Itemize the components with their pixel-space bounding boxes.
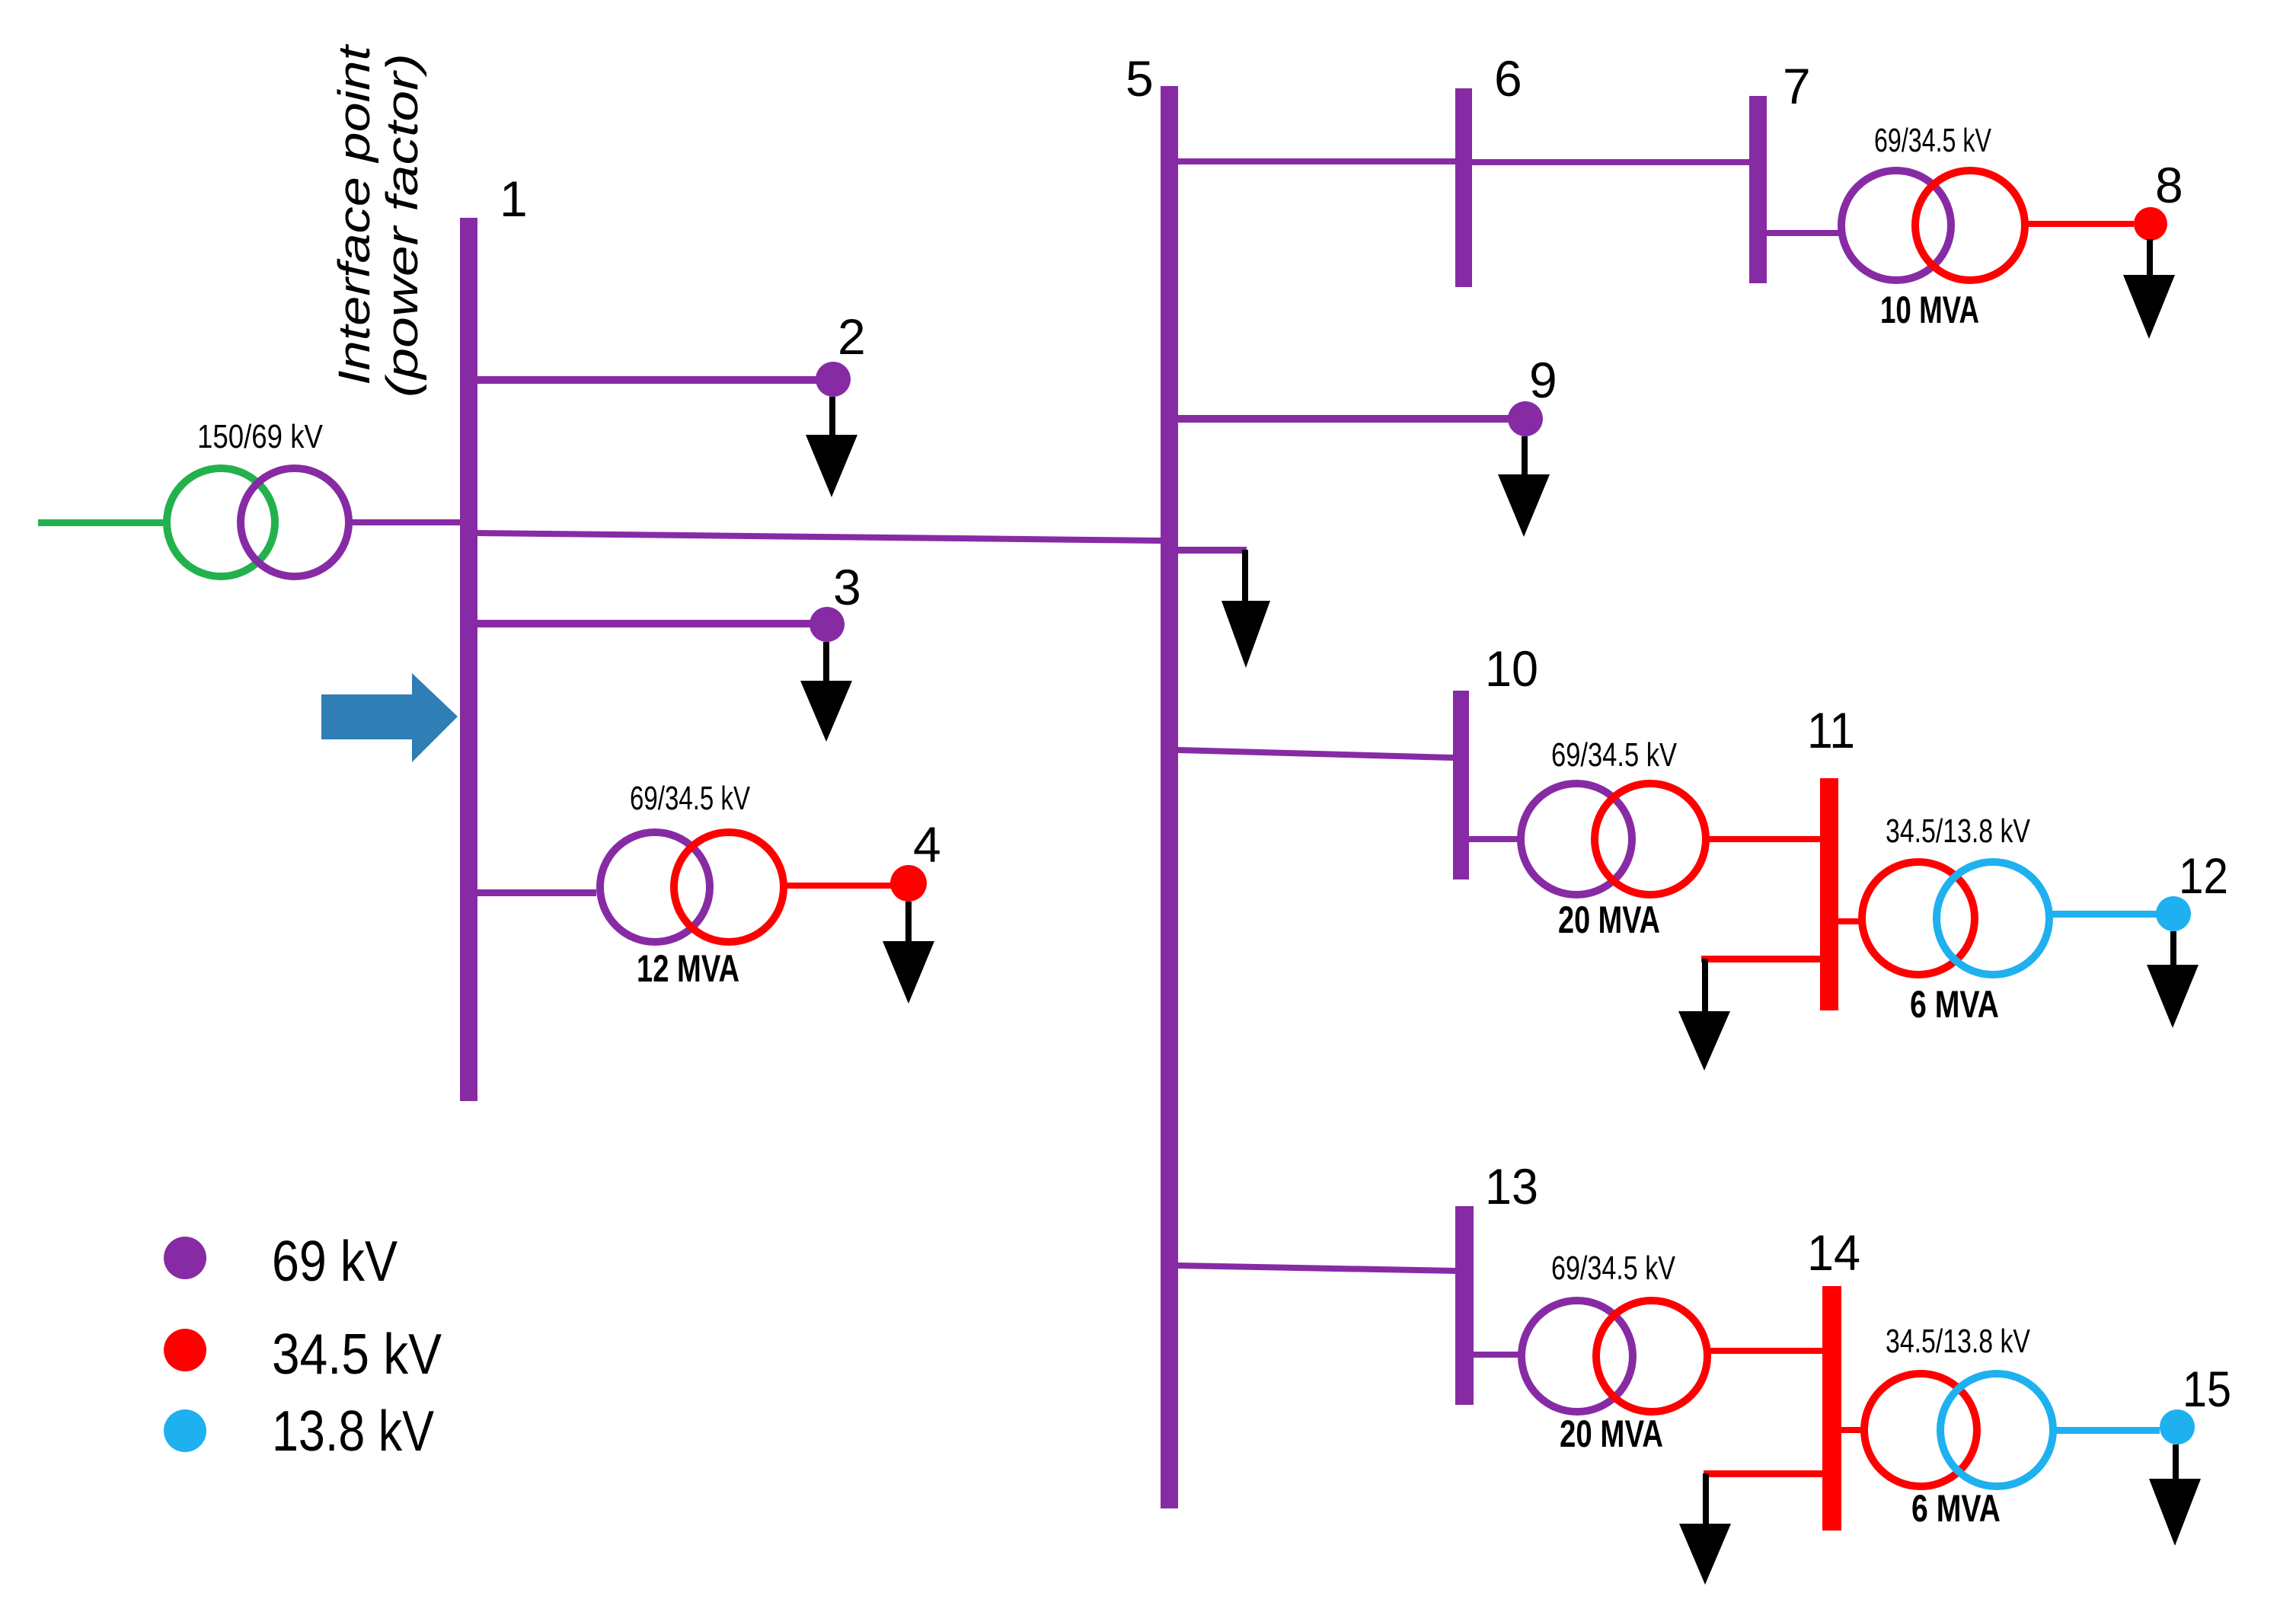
svg-text:14: 14 bbox=[1807, 1224, 1860, 1281]
node label: Interface point (power factor) bbox=[330, 43, 427, 397]
bus 10 bbox=[1453, 691, 1469, 879]
bus 13 bbox=[1455, 1206, 1474, 1405]
load arrow on bus 14 bbox=[1679, 1473, 1731, 1585]
transformer T5 34.5/13.8 kV: cyan circle bbox=[1937, 862, 2049, 975]
transformer T6 69/34.5 kV: purple circle bbox=[1522, 1301, 1633, 1412]
wire: T4 to bus 11 bbox=[1706, 836, 1820, 842]
svg-text:20 MVA: 20 MVA bbox=[1558, 899, 1660, 941]
svg-text:5: 5 bbox=[1126, 50, 1154, 107]
svg-text:69 kV: 69 kV bbox=[272, 1229, 398, 1293]
transformer T4 69/34.5 kV: purple circle bbox=[1521, 784, 1632, 895]
wire: T3 to node 8 bbox=[2025, 221, 2134, 227]
node 3 dot bbox=[810, 607, 845, 642]
wire: bus 1 to T2 bbox=[477, 889, 596, 896]
node 9 dot bbox=[1508, 401, 1543, 436]
svg-text:69/34.5 kV: 69/34.5 kV bbox=[1874, 122, 1991, 159]
load arrow at node 8 bbox=[2123, 239, 2175, 339]
wire: bus 1 to node 2 bbox=[477, 376, 817, 384]
wire: bus 7 to T3 bbox=[1767, 230, 1841, 236]
node 4 dot bbox=[890, 865, 927, 902]
wire: bus 1 to bus 5 bbox=[477, 530, 1161, 544]
bus 7 bbox=[1749, 96, 1767, 283]
transformer T3 69/34.5 kV: purple circle bbox=[1841, 171, 1951, 280]
svg-text:13: 13 bbox=[1485, 1158, 1538, 1215]
svg-text:4: 4 bbox=[913, 816, 941, 873]
svg-text:13.8 kV: 13.8 kV bbox=[272, 1399, 434, 1463]
wire: T6 to bus 14 bbox=[1707, 1348, 1822, 1354]
wire: bus 1 to node 3 bbox=[477, 620, 810, 627]
load arrow at node 9 bbox=[1498, 436, 1550, 537]
load arrow at node 2 bbox=[806, 397, 857, 497]
svg-text:34.5/13.8 kV: 34.5/13.8 kV bbox=[1886, 812, 2030, 850]
svg-text:34.5 kV: 34.5 kV bbox=[272, 1322, 442, 1386]
svg-text:34.5/13.8 kV: 34.5/13.8 kV bbox=[1886, 1323, 2030, 1360]
svg-text:20 MVA: 20 MVA bbox=[1560, 1412, 1663, 1455]
transformer T7 34.5/13.8 kV: cyan circle bbox=[1940, 1374, 2053, 1486]
transformer T7 34.5/13.8 kV: red circle bbox=[1864, 1374, 1977, 1486]
wire: bus 5 to bus 10 bbox=[1178, 747, 1453, 761]
svg-text:Interface point: Interface point bbox=[330, 43, 379, 385]
transformer T2 69/34.5 kV: red circle bbox=[674, 832, 784, 942]
transformer T3 69/34.5 kV: red circle bbox=[1915, 171, 2025, 280]
bus 11 (red) bbox=[1820, 778, 1838, 1010]
svg-text:10 MVA: 10 MVA bbox=[1880, 289, 1979, 331]
wire: bus 5 to bus 6 bbox=[1178, 158, 1455, 164]
transformer T4 69/34.5 kV: red circle bbox=[1595, 784, 1706, 895]
svg-text:2: 2 bbox=[838, 308, 866, 365]
wire: bus 5 to bus 13 bbox=[1178, 1262, 1456, 1274]
load stub on bus 5 bbox=[1178, 547, 1247, 554]
bus 5 bbox=[1161, 86, 1178, 1508]
svg-text:12: 12 bbox=[2179, 847, 2228, 904]
svg-text:6 MVA: 6 MVA bbox=[1911, 1487, 2001, 1530]
svg-text:8: 8 bbox=[2155, 157, 2183, 213]
legend dot 69 kV (purple) bbox=[164, 1237, 206, 1279]
legend dot 13.8 kV (cyan) bbox=[164, 1409, 206, 1452]
wire: bus 11 to T5 bbox=[1838, 918, 1863, 924]
svg-text:1: 1 bbox=[500, 171, 528, 227]
legend dot 34.5 kV (red) bbox=[164, 1329, 206, 1371]
load arrow on bus 5 bbox=[1221, 550, 1270, 668]
wire: bus 14 to T7 bbox=[1841, 1427, 1866, 1433]
svg-text:3: 3 bbox=[833, 559, 861, 615]
transformer T1 150/69 kV: purple circle bbox=[241, 468, 349, 576]
svg-text:6 MVA: 6 MVA bbox=[1910, 983, 1999, 1026]
load arrow at node 12 bbox=[2147, 931, 2199, 1028]
wire: bus 13 to T6 bbox=[1473, 1352, 1520, 1358]
svg-text:12 MVA: 12 MVA bbox=[637, 947, 739, 990]
wire: 150 kV grid line (green) bbox=[38, 519, 168, 526]
wire: bus 10 to T4 bbox=[1469, 836, 1520, 842]
transformer T1 150/69 kV: green circle bbox=[167, 468, 275, 576]
wire: T5 to node 12 bbox=[2049, 911, 2157, 918]
blue arrow pointing at bus 1 bbox=[321, 673, 458, 762]
load arrow at node 15 bbox=[2149, 1444, 2201, 1546]
node 8 dot bbox=[2134, 207, 2167, 241]
svg-text:(power factor): (power factor) bbox=[378, 53, 427, 397]
svg-text:69/34.5 kV: 69/34.5 kV bbox=[1551, 1250, 1676, 1287]
load arrow on bus 11 bbox=[1678, 959, 1730, 1071]
load arrow at node 3 bbox=[800, 642, 852, 742]
svg-text:10: 10 bbox=[1485, 640, 1538, 697]
svg-text:6: 6 bbox=[1494, 50, 1522, 107]
bus 6 bbox=[1455, 88, 1472, 287]
wire: bus 6 to bus 7 bbox=[1472, 159, 1749, 165]
bus 14 (red) bbox=[1822, 1286, 1841, 1531]
transformer T5 34.5/13.8 kV: red circle bbox=[1862, 862, 1975, 975]
svg-text:69/34.5 kV: 69/34.5 kV bbox=[1551, 736, 1678, 774]
svg-text:69/34.5 kV: 69/34.5 kV bbox=[630, 780, 750, 817]
node 2 dot bbox=[816, 362, 851, 397]
wire: T2 to node 4 bbox=[784, 883, 891, 889]
svg-text:7: 7 bbox=[1783, 58, 1811, 114]
svg-text:150/69 kV: 150/69 kV bbox=[197, 418, 324, 455]
load stub on bus 14 bbox=[1704, 1470, 1822, 1477]
bus 1 bbox=[460, 218, 477, 1101]
transformer T6 69/34.5 kV: red circle bbox=[1596, 1301, 1707, 1412]
transformer T2 69/34.5 kV: purple circle bbox=[600, 832, 710, 942]
svg-text:11: 11 bbox=[1807, 702, 1855, 758]
node 15 dot bbox=[2160, 1409, 2195, 1444]
wire: bus 5 to node 9 bbox=[1178, 415, 1510, 423]
load stub on bus 11 bbox=[1701, 956, 1820, 962]
svg-text:15: 15 bbox=[2183, 1361, 2231, 1417]
wire: T7 to node 15 bbox=[2053, 1427, 2160, 1434]
load arrow at node 4 bbox=[883, 902, 934, 1004]
node 12 dot bbox=[2156, 896, 2191, 931]
svg-text:9: 9 bbox=[1529, 352, 1557, 408]
wire: T1 to bus 1 bbox=[346, 519, 460, 525]
